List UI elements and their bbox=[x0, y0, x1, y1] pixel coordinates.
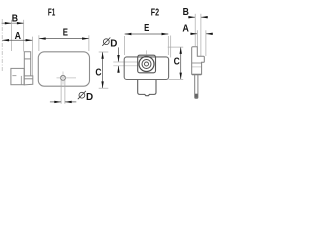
svg-text:B: B bbox=[183, 6, 189, 18]
svg-text:C: C bbox=[174, 56, 180, 67]
F2 side view (hook profile, far right) bbox=[192, 47, 205, 99]
hanging tab bbox=[195, 74, 198, 98]
centerline (dash-dot) bbox=[1, 19, 3, 72]
extension line (inner, above C) bbox=[170, 36, 172, 58]
dark tip of tab bbox=[195, 94, 198, 98]
diameter symbol bbox=[78, 91, 86, 99]
extension tick C top bbox=[168, 46, 184, 48]
lower block bbox=[11, 68, 24, 84]
plate faint line bbox=[192, 66, 201, 68]
extension line A right bbox=[32, 37, 34, 76]
svg-text:C: C bbox=[95, 67, 101, 78]
svg-text:D: D bbox=[110, 38, 117, 49]
extension line B left bbox=[194, 14, 196, 46]
extension line E right bbox=[167, 36, 169, 55]
hole in F1 plate bbox=[61, 76, 66, 81]
svg-text:E: E bbox=[144, 22, 149, 33]
F1 plate front view (rounded rectangle) bbox=[38, 52, 89, 86]
dimension D (F2 boss, left) bbox=[102, 38, 110, 46]
extension line A right bbox=[205, 30, 207, 56]
extension line B left bbox=[11, 20, 13, 51]
svg-text:D: D bbox=[86, 92, 93, 103]
F2 bottom tab bbox=[138, 80, 156, 96]
grommet middle circle bbox=[142, 60, 151, 69]
extension line E left bbox=[38, 35, 40, 51]
grommet outer circle bbox=[139, 57, 154, 72]
plate bottom thick edge bbox=[192, 74, 202, 76]
diameter symbol bbox=[103, 39, 109, 45]
svg-text:F2: F2 bbox=[151, 6, 159, 18]
extension line E right bbox=[88, 35, 90, 51]
extension tick C bottom bbox=[99, 87, 109, 89]
extension line B right bbox=[200, 14, 202, 56]
svg-text:E: E bbox=[63, 27, 68, 38]
F1 side view (latch profile, left) bbox=[11, 52, 33, 85]
hole horizontal centerline bbox=[57, 77, 77, 79]
grommet inner circle bbox=[145, 62, 149, 66]
grommet centerline stub bbox=[146, 50, 148, 54]
dimension D (F1 hole, bottom) bbox=[60, 80, 62, 104]
svg-text:F1: F1 bbox=[48, 6, 56, 18]
extension tick C top bbox=[99, 51, 109, 53]
extension line E left bbox=[124, 36, 126, 55]
hole vertical centerline bbox=[62, 72, 64, 85]
boss tangent ticks bbox=[113, 61, 137, 63]
svg-text:A: A bbox=[182, 23, 189, 35]
hook plate bbox=[192, 47, 205, 74]
svg-text:A: A bbox=[15, 29, 22, 41]
F2 body front view bbox=[124, 57, 168, 80]
plate mid line bbox=[192, 62, 202, 64]
crossbar bbox=[24, 58, 30, 60]
extension tick C bottom bbox=[169, 78, 184, 80]
latch arm bbox=[24, 76, 33, 85]
extension line A left bbox=[196, 30, 198, 46]
bezel (rounded square around grommet) bbox=[138, 55, 156, 73]
upper plate (edge-on) bbox=[24, 52, 30, 76]
extension line B right bbox=[23, 20, 25, 52]
